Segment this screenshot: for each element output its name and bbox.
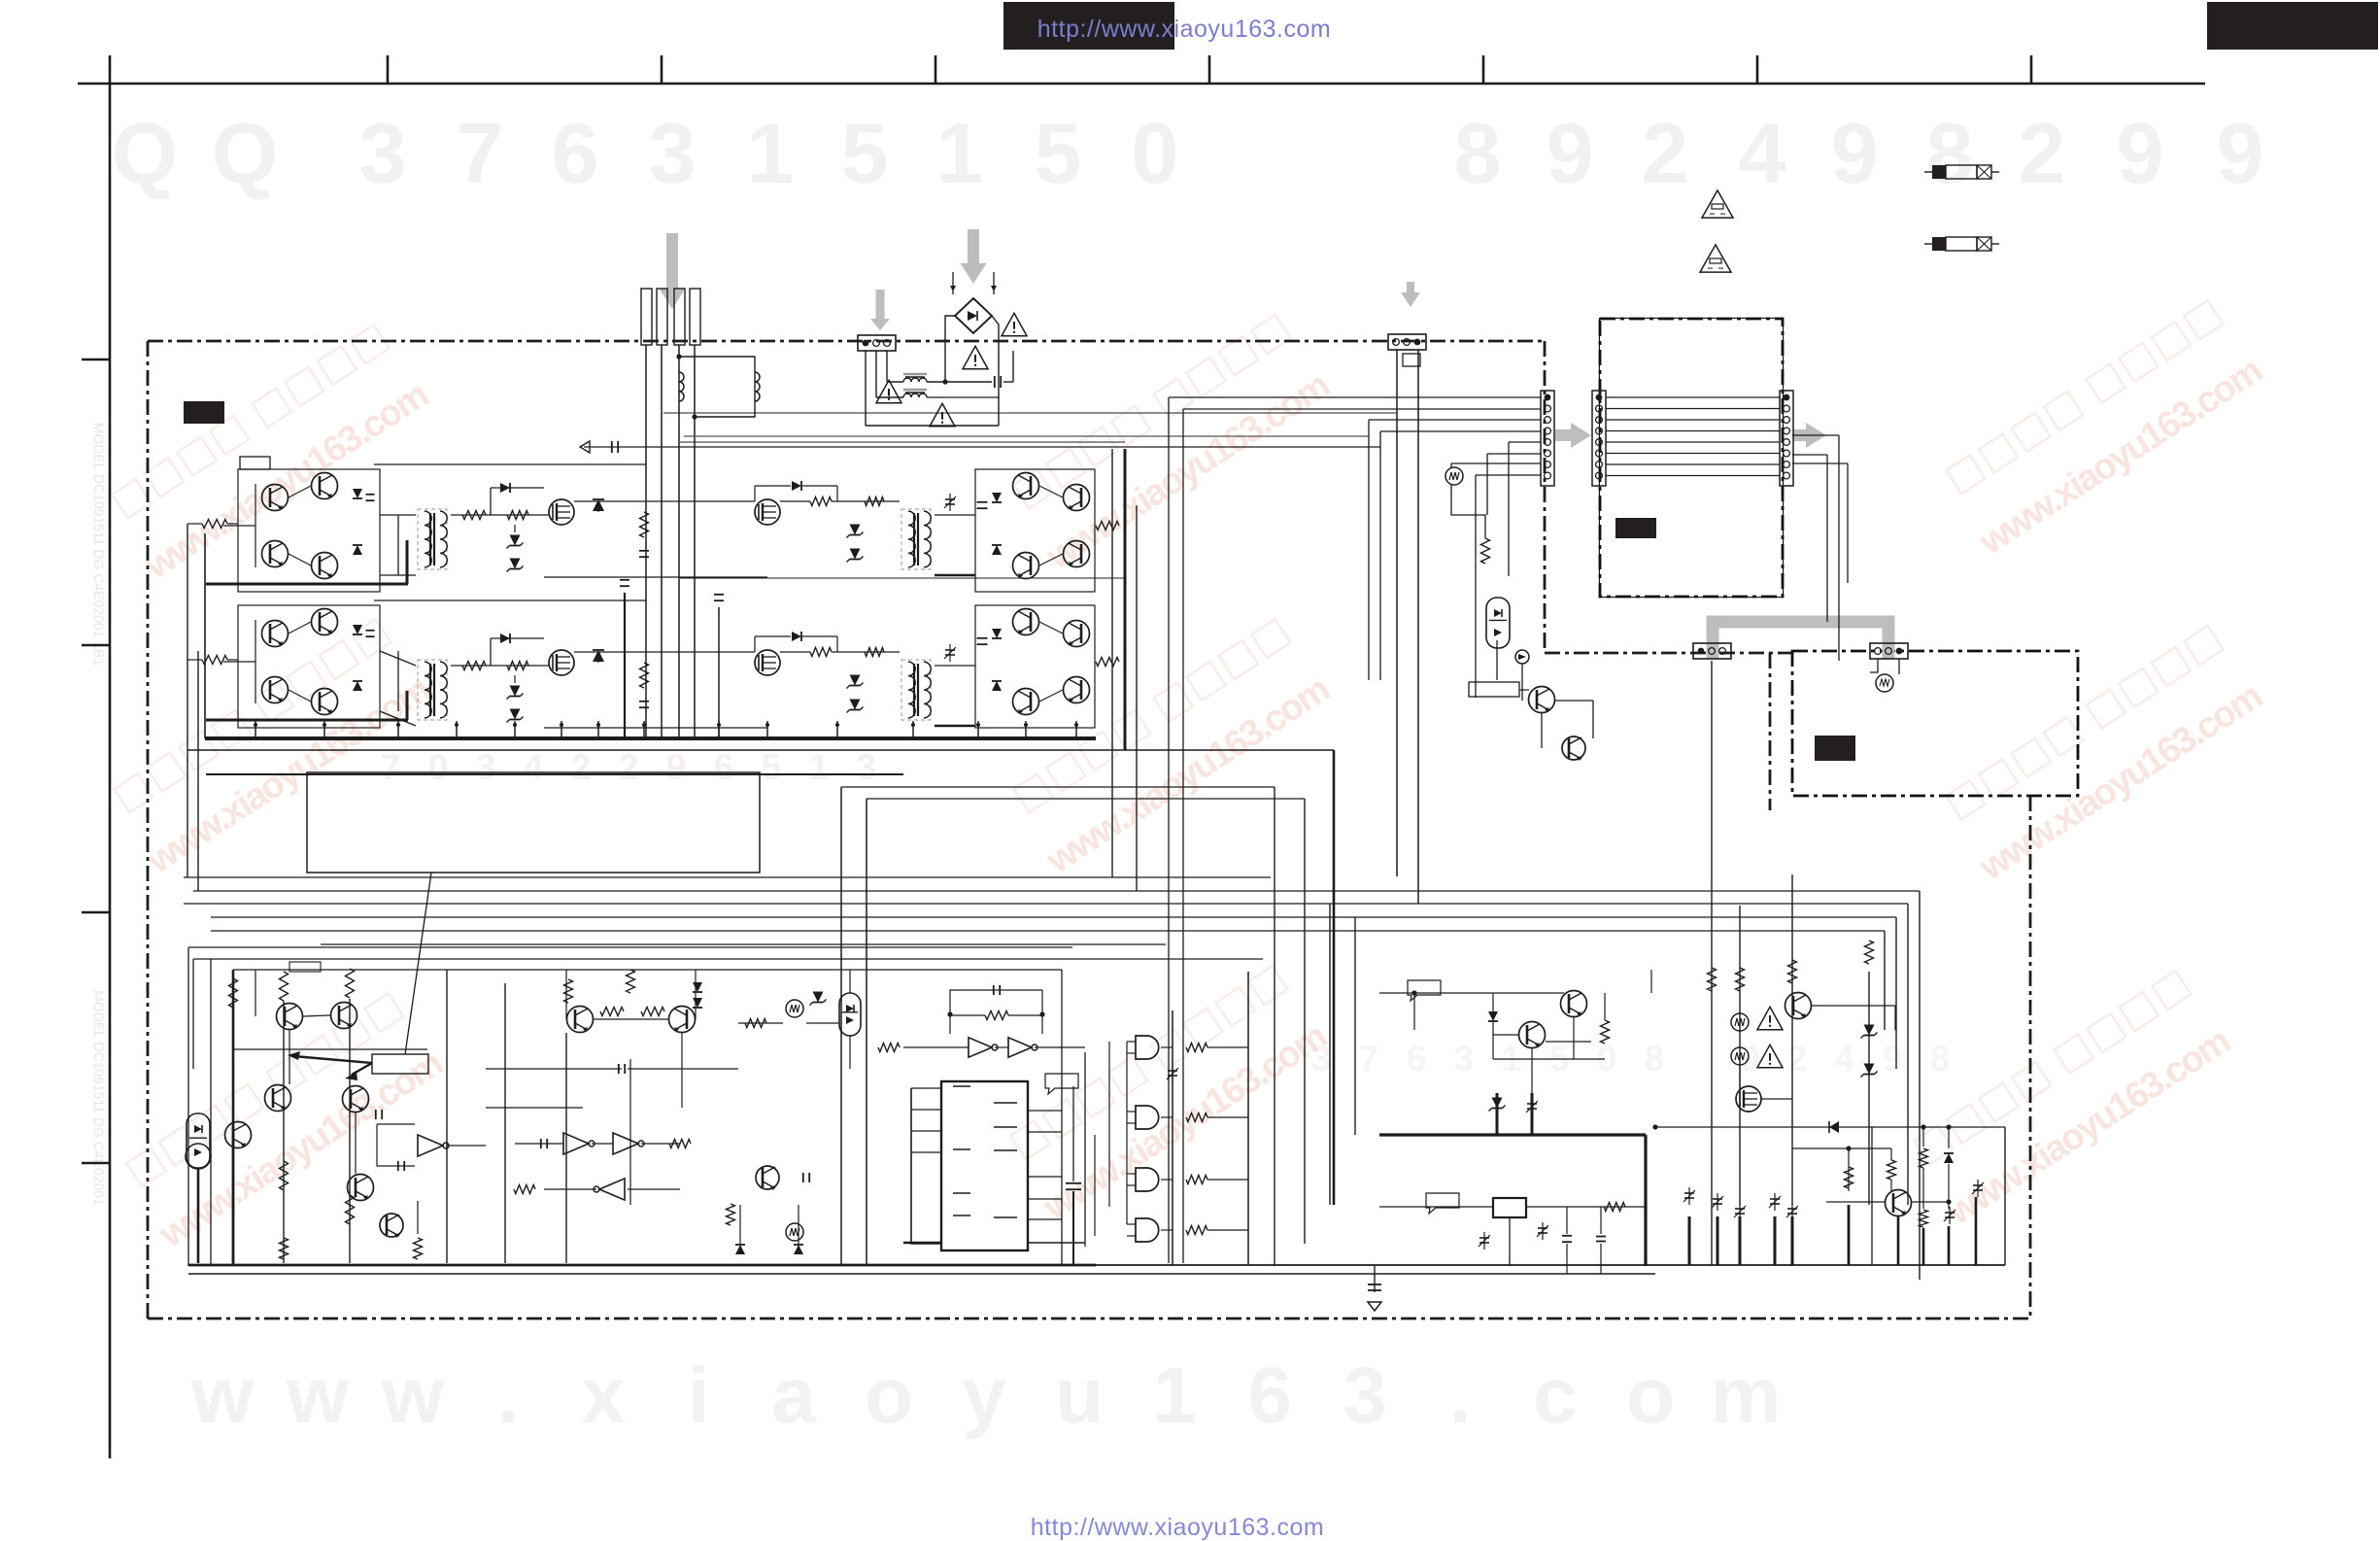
pcb label black box top left [184, 401, 224, 424]
diodes bottom center [727, 1204, 804, 1254]
resistor pm [1601, 1020, 1610, 1044]
inverter control A [418, 1135, 443, 1156]
svg-text:i: i [688, 1352, 710, 1440]
wire ribbon harness [1606, 397, 1780, 476]
gray arrow down D [1407, 282, 1414, 292]
transistor lower mid [348, 1175, 374, 1201]
pwm ic feedback [947, 985, 1044, 1034]
mosfet switch left [549, 650, 574, 675]
rectifier diodes right [975, 605, 1095, 728]
output transistor quad right [1013, 473, 1090, 579]
blacked label in power unit [1815, 736, 1855, 761]
capacitor C mid1 [620, 579, 629, 581]
svg-text:8: 8 [1930, 1039, 1951, 1079]
svg-text:u: u [1055, 1352, 1104, 1440]
watermark mid digits row [381, 747, 1951, 1079]
wire heavy stubs bottom [1689, 1216, 1792, 1265]
svg-text:6: 6 [1407, 1039, 1427, 1079]
svg-text:3: 3 [1343, 1352, 1387, 1440]
frame left tick marks [82, 360, 110, 1163]
pcb border right edge [2029, 796, 2032, 1318]
svg-text:w: w [286, 1352, 349, 1440]
wire bus stubs upper [205, 533, 1078, 738]
zener right 1 [1864, 1025, 1875, 1036]
svg-text:o: o [1626, 1352, 1675, 1440]
resistor amp in [202, 520, 227, 529]
wire cluster to transformer [380, 651, 416, 726]
transistor osc [756, 1166, 779, 1189]
svg-text:7: 7 [457, 105, 504, 201]
wire bundle risers right [1275, 787, 1920, 1280]
svg-text:0: 0 [428, 747, 449, 787]
transistor low driver [1562, 736, 1585, 760]
wire right net top [1379, 970, 1651, 1030]
cap pwm timing [1066, 1052, 1085, 1265]
watermark bottom url letters [190, 1352, 1781, 1440]
wire cluster top extension [374, 599, 646, 601]
gray arrow right F [1793, 429, 1806, 441]
resistor ladder center [564, 970, 635, 1003]
display unit dash-dot box [1600, 319, 1783, 597]
adjust arrow and label [288, 1051, 428, 1080]
diode right net [1488, 1011, 1498, 1021]
svg-text:c: c [1533, 1352, 1578, 1440]
optocoupler sense [839, 993, 861, 1036]
capacitor C mid2 [714, 594, 724, 596]
warning triangle v2 [1757, 1044, 1783, 1067]
svg-text:7: 7 [381, 747, 401, 787]
svg-text:8: 8 [1454, 105, 1502, 201]
transistor right top [1785, 993, 1812, 1019]
diff pair transistors [566, 970, 696, 1033]
svg-text:1: 1 [1152, 1352, 1197, 1440]
trim cap gate [1168, 1070, 1177, 1072]
transistor mid left [265, 1085, 291, 1112]
output transistor quad right [1013, 609, 1090, 715]
relay coil box [1493, 1198, 1526, 1217]
pcb border horizontal link [1545, 652, 1792, 655]
driver transformer [418, 509, 447, 569]
gray wire bus U [1713, 622, 1888, 659]
snubber loop with inductors [676, 354, 760, 419]
power unit dash-dot box [1792, 651, 2078, 796]
pcb border top edge [148, 340, 1545, 343]
inverter chain B [515, 1133, 680, 1154]
transistor pair input [277, 1003, 357, 1030]
wire main supply bus return [187, 749, 1334, 751]
title block top right (blacked out) [2207, 2, 2378, 50]
diode cluster left [353, 625, 375, 691]
fuse symbol legend 1 [1924, 165, 1999, 179]
cap coupling mid [618, 1064, 620, 1074]
label bubble pwm [1045, 1074, 1078, 1094]
optocoupler control [186, 1113, 211, 1169]
connector link right [1870, 643, 1908, 659]
main transformer [901, 509, 931, 569]
wire risers from amp [841, 787, 1305, 1266]
wire lower left mesh [198, 970, 427, 1263]
diode gate drive [500, 634, 510, 643]
diode snub right [792, 481, 801, 491]
warning triangle v1 [1757, 1007, 1783, 1029]
wire amp in [187, 523, 202, 525]
optocoupler right mid [1486, 598, 1510, 648]
pcb label tab [240, 457, 270, 469]
watermark pink diagonal stamps [103, 297, 2268, 1256]
wire output heavy link [206, 583, 408, 586]
wire relay net [1379, 1203, 1646, 1275]
wire amp block lower rail [206, 773, 903, 775]
blacked label in display unit [1615, 518, 1656, 538]
connector link left [1693, 643, 1731, 659]
transistor pm lower [1519, 1022, 1546, 1048]
drive network right [755, 636, 900, 713]
warning triangle standalone 2 [1700, 245, 1731, 272]
pcb border bottom edge [148, 1318, 2030, 1320]
wire left input rails [187, 524, 198, 891]
frame left border line [109, 55, 112, 1458]
transistor bottom [380, 1214, 403, 1237]
svg-text:9: 9 [1547, 105, 1594, 201]
svg-text:5: 5 [1035, 105, 1082, 201]
output transistor quad left [223, 469, 380, 592]
wire inverter A loop [377, 1124, 486, 1171]
transistor pm top [1561, 991, 1587, 1017]
thermistor osc [786, 1223, 803, 1241]
diode mosfet [593, 650, 604, 662]
warning triangle ac2 [930, 403, 955, 426]
svg-text:6: 6 [552, 105, 599, 201]
wire amp in [187, 659, 202, 661]
wire control bottom bus [188, 1265, 2005, 1274]
label bubble right2 [1426, 1193, 1459, 1214]
wire fuse drops [625, 345, 719, 738]
pwm ic body [941, 1081, 1028, 1250]
svg-text:Q: Q [212, 105, 278, 201]
mosfet switch left [549, 499, 574, 525]
svg-text:3: 3 [359, 105, 407, 201]
ground cap and symbol [1368, 1266, 1381, 1311]
svg-text:MODEL DC1091511 DG C4E02001: MODEL DC1091511 DG C4E02001 1B1 [91, 423, 107, 667]
svg-text:http://www.xiaoyu163.com: http://www.xiaoyu163.com [1037, 16, 1331, 43]
diode snub right [792, 632, 801, 641]
header strip right [1780, 391, 1793, 486]
svg-text:5: 5 [841, 105, 889, 201]
warning triangle ac1 [876, 380, 901, 402]
wire output heavy link [206, 719, 408, 722]
svg-text:9: 9 [2117, 105, 2164, 201]
mosfet switch right [755, 650, 780, 675]
wire long run y449 [684, 435, 1369, 437]
svg-text:8: 8 [1926, 105, 1974, 201]
wire connector drops [1397, 350, 1420, 904]
wire thick power rail [1379, 1135, 1646, 1266]
wire cluster to transformer [380, 515, 416, 575]
frame top ruler line [78, 83, 2205, 86]
ac inlet wiring [866, 351, 1013, 426]
wire sense mesh [738, 970, 850, 1069]
wire long run y460 with input arrow [580, 441, 1380, 453]
gate drive network [451, 638, 549, 723]
svg-text:4: 4 [524, 747, 544, 787]
rectifier diodes right [975, 469, 1095, 592]
diode stack [693, 982, 702, 1008]
bridge rectifier [945, 272, 999, 426]
gray arrow right E [1555, 429, 1571, 441]
cap feedback [375, 1110, 377, 1119]
svg-text:2: 2 [2019, 105, 2066, 201]
warning triangle standalone 1 [1702, 190, 1733, 218]
svg-text:MODEL DC1091511 DG C4E02001: MODEL DC1091511 DG C4E02001 [91, 990, 107, 1206]
drive network right [755, 486, 900, 563]
wire center mesh [447, 970, 738, 1263]
wire right columns [1712, 661, 1869, 1265]
wire inverter reverse [514, 1140, 691, 1194]
wire top rail [680, 441, 1125, 443]
watermark left margin vertical text [91, 423, 107, 1206]
svg-text:9: 9 [666, 747, 687, 787]
wire cluster top extension [374, 463, 646, 465]
svg-text:http://www.xiaoyu163.com: http://www.xiaoyu163.com [1031, 1514, 1324, 1541]
svg-text:w: w [190, 1352, 254, 1440]
wire top rail [680, 577, 1125, 579]
svg-text:a: a [771, 1352, 817, 1440]
zener right 2 [1864, 1064, 1875, 1075]
svg-text:3: 3 [1454, 1039, 1475, 1079]
pcb border short vertical at panel [1769, 653, 1772, 810]
svg-text:3: 3 [857, 747, 877, 787]
main transformer [901, 660, 931, 720]
transistor sense [786, 992, 827, 1018]
wire right amp bus [1112, 449, 1137, 891]
varistor v1 [1731, 1013, 1749, 1031]
frame top tick marks [388, 55, 2031, 84]
inverter reverse [599, 1179, 625, 1200]
svg-text:9: 9 [2217, 105, 2264, 201]
wire right mesh b [1792, 1127, 1955, 1265]
inverter pair pwm [878, 1038, 1085, 1057]
wire pin8 drop [1476, 474, 1541, 476]
svg-text:1: 1 [747, 105, 795, 201]
svg-text:1: 1 [809, 747, 830, 787]
header strip mid [1592, 391, 1606, 486]
wire sensor leads [1451, 463, 1541, 538]
transistor right bottom [1886, 1190, 1912, 1216]
svg-text:2: 2 [1642, 105, 1689, 201]
svg-text:y: y [962, 1352, 1006, 1440]
svg-text:4: 4 [1739, 105, 1786, 201]
wire right mesh c [1826, 1127, 2005, 1265]
svg-text:9: 9 [1883, 1039, 1903, 1079]
svg-text:m: m [1711, 1352, 1782, 1440]
svg-text:5: 5 [762, 747, 782, 787]
svg-text:.: . [497, 1352, 520, 1440]
wire pm mesh [1489, 993, 1606, 1135]
thermistor in power unit [1870, 659, 1899, 692]
resistor output right [1096, 522, 1119, 531]
transistor lower left [225, 1122, 252, 1148]
svg-text:0: 0 [1132, 105, 1179, 201]
label box right mid [1469, 682, 1519, 697]
diode long wire [1652, 1121, 2005, 1133]
warning triangle ac3 [963, 346, 988, 368]
svg-text:4: 4 [1835, 1039, 1855, 1079]
cap osc [802, 1173, 804, 1182]
mosfet switch right [755, 499, 780, 525]
pcb border inner right edge [1544, 341, 1547, 653]
relay block rectangle [307, 772, 760, 873]
wire transformer secondary [935, 644, 975, 726]
svg-text:3: 3 [476, 747, 496, 787]
svg-text:x: x [581, 1352, 626, 1440]
resistor amp in [202, 656, 227, 665]
svg-text:Q: Q [112, 105, 178, 201]
svg-text:.: . [1449, 1352, 1472, 1440]
svg-text:9: 9 [1831, 105, 1879, 201]
wire right mid links [1497, 640, 1593, 748]
led power indicator [1515, 650, 1529, 664]
pcb border left edge [147, 341, 150, 1318]
wire gate feeds [1062, 970, 1248, 1265]
watermark top digits [112, 105, 2264, 201]
wire risers to connector rows [1169, 397, 1541, 1263]
bias resistors upper [229, 969, 355, 1008]
center link wires [544, 652, 767, 728]
svg-text:o: o [865, 1352, 913, 1440]
gray arrow down A [666, 233, 678, 289]
center link wires [544, 501, 767, 577]
wire strip right breakout [1792, 435, 1848, 661]
svg-text:6: 6 [714, 747, 734, 787]
wire main supply bus thick [205, 736, 1096, 740]
svg-text:6: 6 [1247, 1352, 1292, 1440]
svg-text:w: w [381, 1352, 444, 1440]
logic and gates [1127, 1036, 1248, 1242]
svg-text:8: 8 [1645, 1039, 1665, 1079]
pwm ic pin stubs [903, 1088, 1085, 1244]
svg-text:7: 7 [1359, 1039, 1379, 1079]
wire bundle mid horizontals [184, 877, 1920, 944]
pointer line to label [405, 873, 431, 1054]
gray arrow down B [968, 229, 979, 263]
control section outer border [188, 947, 1263, 1266]
svg-text:2: 2 [619, 747, 639, 787]
wire long run y425 [663, 412, 1396, 414]
warning triangle ac4 [1002, 313, 1027, 335]
ac inlet connector [858, 335, 896, 351]
diode cluster left [353, 489, 375, 555]
thermistor sensor [1445, 467, 1463, 485]
mosfet control [1736, 1086, 1761, 1112]
diode gate drive [500, 483, 510, 493]
svg-text:3: 3 [649, 105, 697, 201]
wire transformer secondary [935, 494, 975, 575]
transistor mid right [343, 1086, 369, 1113]
output transistor quad left [223, 605, 380, 728]
resistors right top [1708, 941, 1874, 991]
wire right mesh a [1740, 1006, 1895, 1099]
connector top pcb [1388, 334, 1426, 350]
gate drive network [451, 488, 549, 572]
diode mosfet [593, 499, 604, 511]
fuse symbol legend 2 [1924, 237, 1999, 251]
resistor output right [1096, 658, 1119, 667]
svg-text:1: 1 [936, 105, 984, 201]
svg-text:2: 2 [571, 747, 592, 787]
gray arrow down C [876, 290, 885, 319]
svg-text:2: 2 [1787, 1039, 1808, 1079]
label bubble right1 [1408, 980, 1441, 1001]
header strip left [1541, 391, 1554, 486]
varistor v2 [1731, 1047, 1749, 1065]
resistor sensor divider [1481, 538, 1490, 564]
driver transformer [418, 660, 447, 720]
transistor driver right mid [1529, 687, 1555, 713]
title block top center (blacked out) [1003, 2, 1174, 50]
trim caps bottom row [1683, 1187, 1798, 1220]
fuse block rectangles [641, 289, 700, 345]
